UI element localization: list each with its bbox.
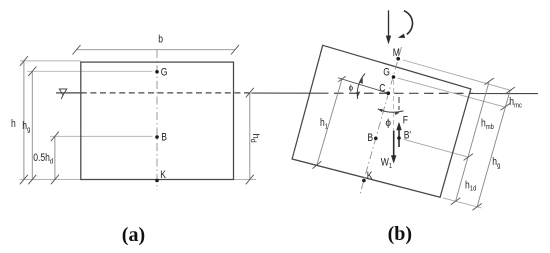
svg-text:K: K	[367, 170, 373, 182]
svg-text:M: M	[393, 47, 400, 59]
svg-text:hmc: hmc	[509, 96, 522, 110]
svg-text:hg: hg	[22, 120, 30, 134]
svg-text:G: G	[161, 66, 168, 78]
svg-text:B: B	[367, 132, 373, 144]
svg-text:h: h	[11, 118, 16, 130]
svg-text:G: G	[383, 66, 390, 78]
svg-text:C: C	[379, 82, 385, 94]
svg-text:W1: W1	[381, 156, 393, 170]
svg-text:b: b	[158, 34, 163, 46]
svg-text:(b): (b)	[388, 223, 412, 245]
svg-text:h1d: h1d	[465, 179, 476, 193]
svg-text:F: F	[403, 115, 408, 127]
svg-text:hmb: hmb	[481, 118, 494, 132]
svg-text:hd: hd	[249, 134, 261, 143]
svg-text:ϕ: ϕ	[349, 83, 354, 92]
svg-text:K: K	[160, 169, 166, 181]
svg-text:0.5hd: 0.5hd	[33, 152, 53, 166]
svg-text:h1: h1	[320, 117, 328, 131]
svg-text:hg: hg	[492, 156, 500, 170]
svg-text:ϕ: ϕ	[385, 118, 391, 129]
svg-text:B: B	[161, 131, 167, 143]
svg-text:(a): (a)	[122, 224, 145, 246]
svg-text:B': B'	[404, 130, 411, 142]
